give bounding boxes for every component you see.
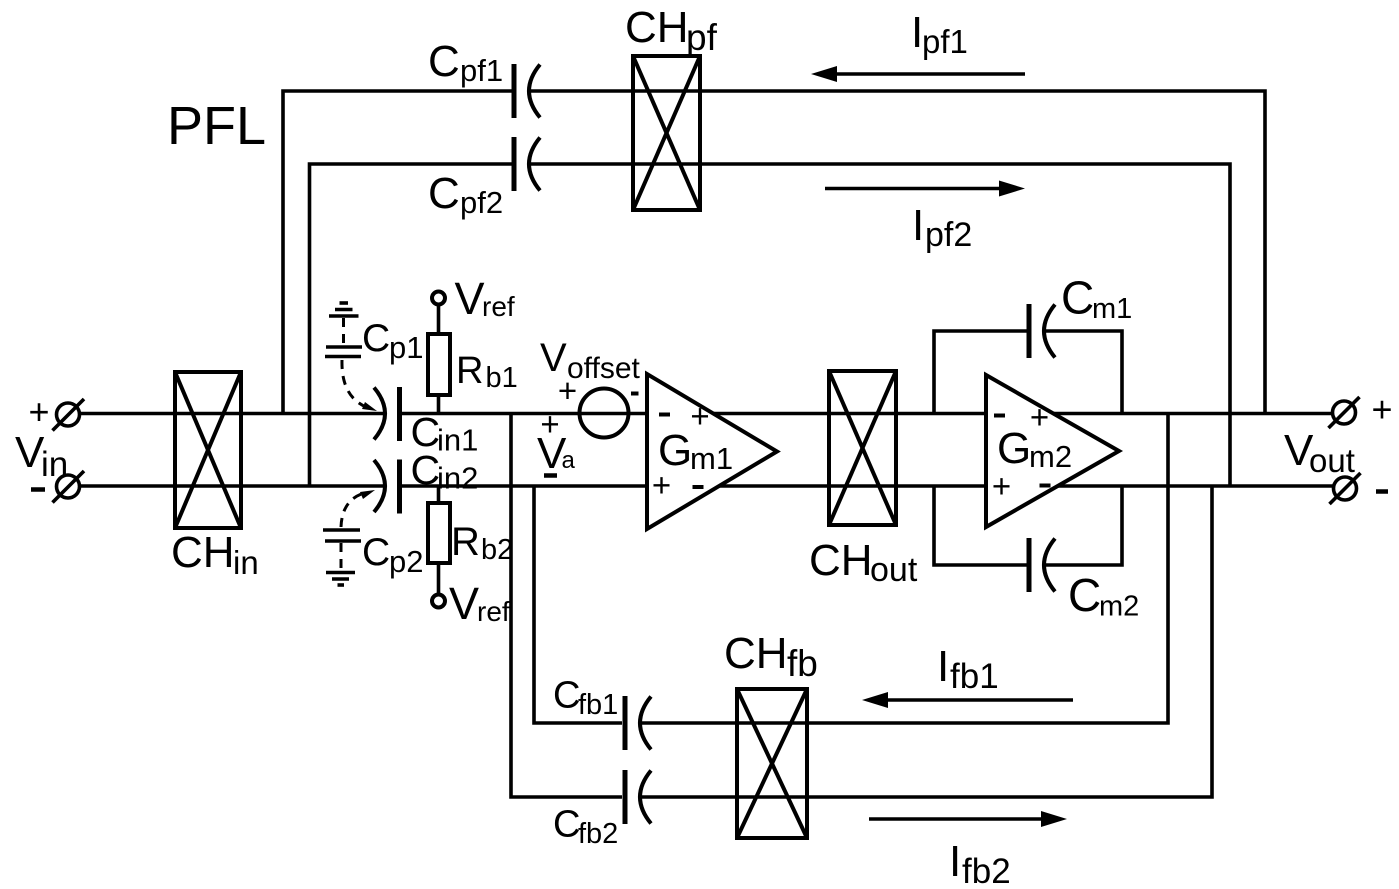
svg-text:out: out [870,551,918,589]
wire bottom rail left segment [79,484,386,488]
wire PFL upper branch right (C_pf1 to Vout+ rail) [529,91,1265,414]
svg-text:fb1: fb1 [578,689,618,721]
wire C_fb1 to Vout+ rail [640,414,1168,724]
capacitor C_pf2 [514,137,540,191]
svg-text:in2: in2 [437,461,478,496]
wire C_m1 loop right [1044,331,1122,414]
wire C_m1 loop left [934,331,1027,414]
svg-text:PFL: PFL [167,96,266,156]
svg-text:fb2: fb2 [578,818,618,850]
capacitor C_in1 [374,387,400,441]
svg-text:R: R [456,350,483,392]
capacitor C_fb2 [625,770,651,824]
svg-text:CH: CH [809,536,873,585]
resistor R_b2 with V_ref terminal [428,486,450,608]
svg-text:m2: m2 [1029,439,1072,474]
label V_offset [540,336,640,385]
chopper CH_pf [633,56,700,210]
svg-text:fb2: fb2 [962,852,1011,889]
capacitor C_fb1 [625,696,651,750]
capacitor C_m1 [1029,304,1055,358]
label R_b2 [451,520,513,566]
svg-text:G: G [997,424,1031,473]
label C_pf2 [428,169,503,220]
terminal Vin+ [29,391,85,432]
op-amp G_m1 [647,374,777,529]
svg-text:ref: ref [482,291,515,322]
label V_ref bottom [449,578,510,629]
svg-text:+: + [652,467,671,504]
svg-text:CH: CH [171,528,235,577]
capacitor C_pf1 [514,64,540,118]
wire PFL upper branch left (corner to C_pf1) [283,91,512,414]
label C_m2 [1068,569,1139,623]
label C_fb1 [553,675,618,722]
svg-text:V: V [455,273,485,324]
svg-text:b2: b2 [481,534,513,566]
wire feedback branch Va- to C_fb1 [534,486,622,723]
svg-text:in: in [41,445,68,484]
label C_p2 [362,531,423,579]
capacitor C_p1 (parasitic plates) [325,347,362,357]
current arrow I_pf2 [825,181,1025,197]
label Vout [1284,426,1355,479]
svg-text:b1: b1 [486,362,518,394]
svg-text:p1: p1 [389,330,423,365]
source V_offset [558,372,639,438]
svg-text:C: C [411,447,441,493]
wire dashed pointer C_p2 to node [341,490,375,527]
label C_fb2 [553,804,618,851]
current arrow I_fb1 [862,692,1073,708]
label C_in1 [411,409,479,458]
svg-text:C: C [553,675,580,717]
svg-text:I: I [949,837,961,886]
svg-text:offset: offset [567,352,640,385]
capacitor C_m2 [1029,538,1055,592]
label I_pf2 [912,201,972,254]
svg-text:p2: p2 [389,544,423,579]
svg-text:ref: ref [477,596,510,627]
svg-text:in: in [233,544,259,581]
svg-text:V: V [540,336,567,380]
svg-text:m1: m1 [1092,293,1132,325]
svg-text:I: I [937,642,949,691]
chopper CH_fb [737,689,807,838]
svg-text:fb: fb [787,643,818,684]
svg-text:C: C [362,317,390,360]
svg-text:pf2: pf2 [925,216,972,254]
wire PFL lower branch left (corner to C_pf2) [310,164,512,486]
wire C_fb2 to Vout- rail [640,486,1212,797]
svg-text:pf1: pf1 [922,23,968,60]
svg-text:m1: m1 [690,441,733,476]
svg-text:C: C [428,169,460,218]
op-amp G_m2 [986,375,1119,527]
svg-text:C: C [553,804,580,846]
label C_pf1 [428,37,503,88]
wire top rail right segment [400,412,1333,416]
capacitor C_in2 [374,460,400,514]
svg-text:in1: in1 [437,423,478,458]
svg-text:out: out [1309,442,1355,479]
ground (above C_p1) [329,303,359,345]
wire C_m2 loop right [1044,486,1122,565]
svg-text:I: I [912,201,924,250]
wire dashed pointer C_p1 to node [342,360,377,411]
svg-text:+: + [1030,399,1049,436]
label I_fb1 [937,642,999,696]
resistor R_b1 with V_ref terminal [428,292,450,414]
chopper CH_out [829,371,896,525]
terminal Vout- [1330,473,1389,504]
svg-text:CH: CH [724,629,788,678]
svg-text:pf2: pf2 [460,185,503,220]
current arrow I_pf1 [811,66,1025,82]
label CH_fb [724,629,818,684]
wire C_m2 loop left [934,486,1027,565]
svg-text:C: C [1061,272,1094,324]
label I_pf1 [911,8,968,60]
label CH_out [809,536,918,589]
chopper CH_in [175,372,241,528]
wire feedback branch Va+ to C_fb2 [511,414,622,798]
svg-text:m2: m2 [1099,591,1139,623]
svg-text:C: C [428,37,460,86]
label CH_pf [625,3,718,58]
svg-text:V: V [449,578,479,629]
wire bottom rail right segment [400,484,1334,488]
svg-text:+: + [992,468,1011,505]
label C_m1 [1061,272,1132,326]
svg-text:C: C [1068,569,1101,621]
capacitor C_p2 (parasitic plates) [323,530,361,541]
label CH_in [171,528,259,581]
svg-text:a: a [562,447,576,474]
wire PFL lower branch right (C_pf2 to Vout- rail) [529,164,1230,486]
svg-text:pf1: pf1 [460,53,503,88]
terminal Vin- [31,471,84,503]
svg-text:pf: pf [686,17,718,58]
svg-text:CH: CH [625,3,689,52]
label C_in2 [411,447,479,496]
svg-text:+: + [1372,389,1393,430]
svg-text:R: R [451,520,480,564]
svg-text:C: C [362,531,390,574]
label R_b1 [456,350,518,394]
ground (below C_p2) [326,543,355,585]
svg-text:fb1: fb1 [950,657,999,696]
label V_ref top [455,273,515,324]
label C_p1 [362,317,423,365]
node V_a [537,406,576,479]
terminal Vout+ [1329,389,1393,430]
label I_fb2 [949,837,1011,889]
svg-text:+: + [29,391,50,432]
wire top rail left segment [79,412,386,416]
current arrow I_fb2 [869,811,1067,827]
svg-text:+: + [690,398,709,435]
